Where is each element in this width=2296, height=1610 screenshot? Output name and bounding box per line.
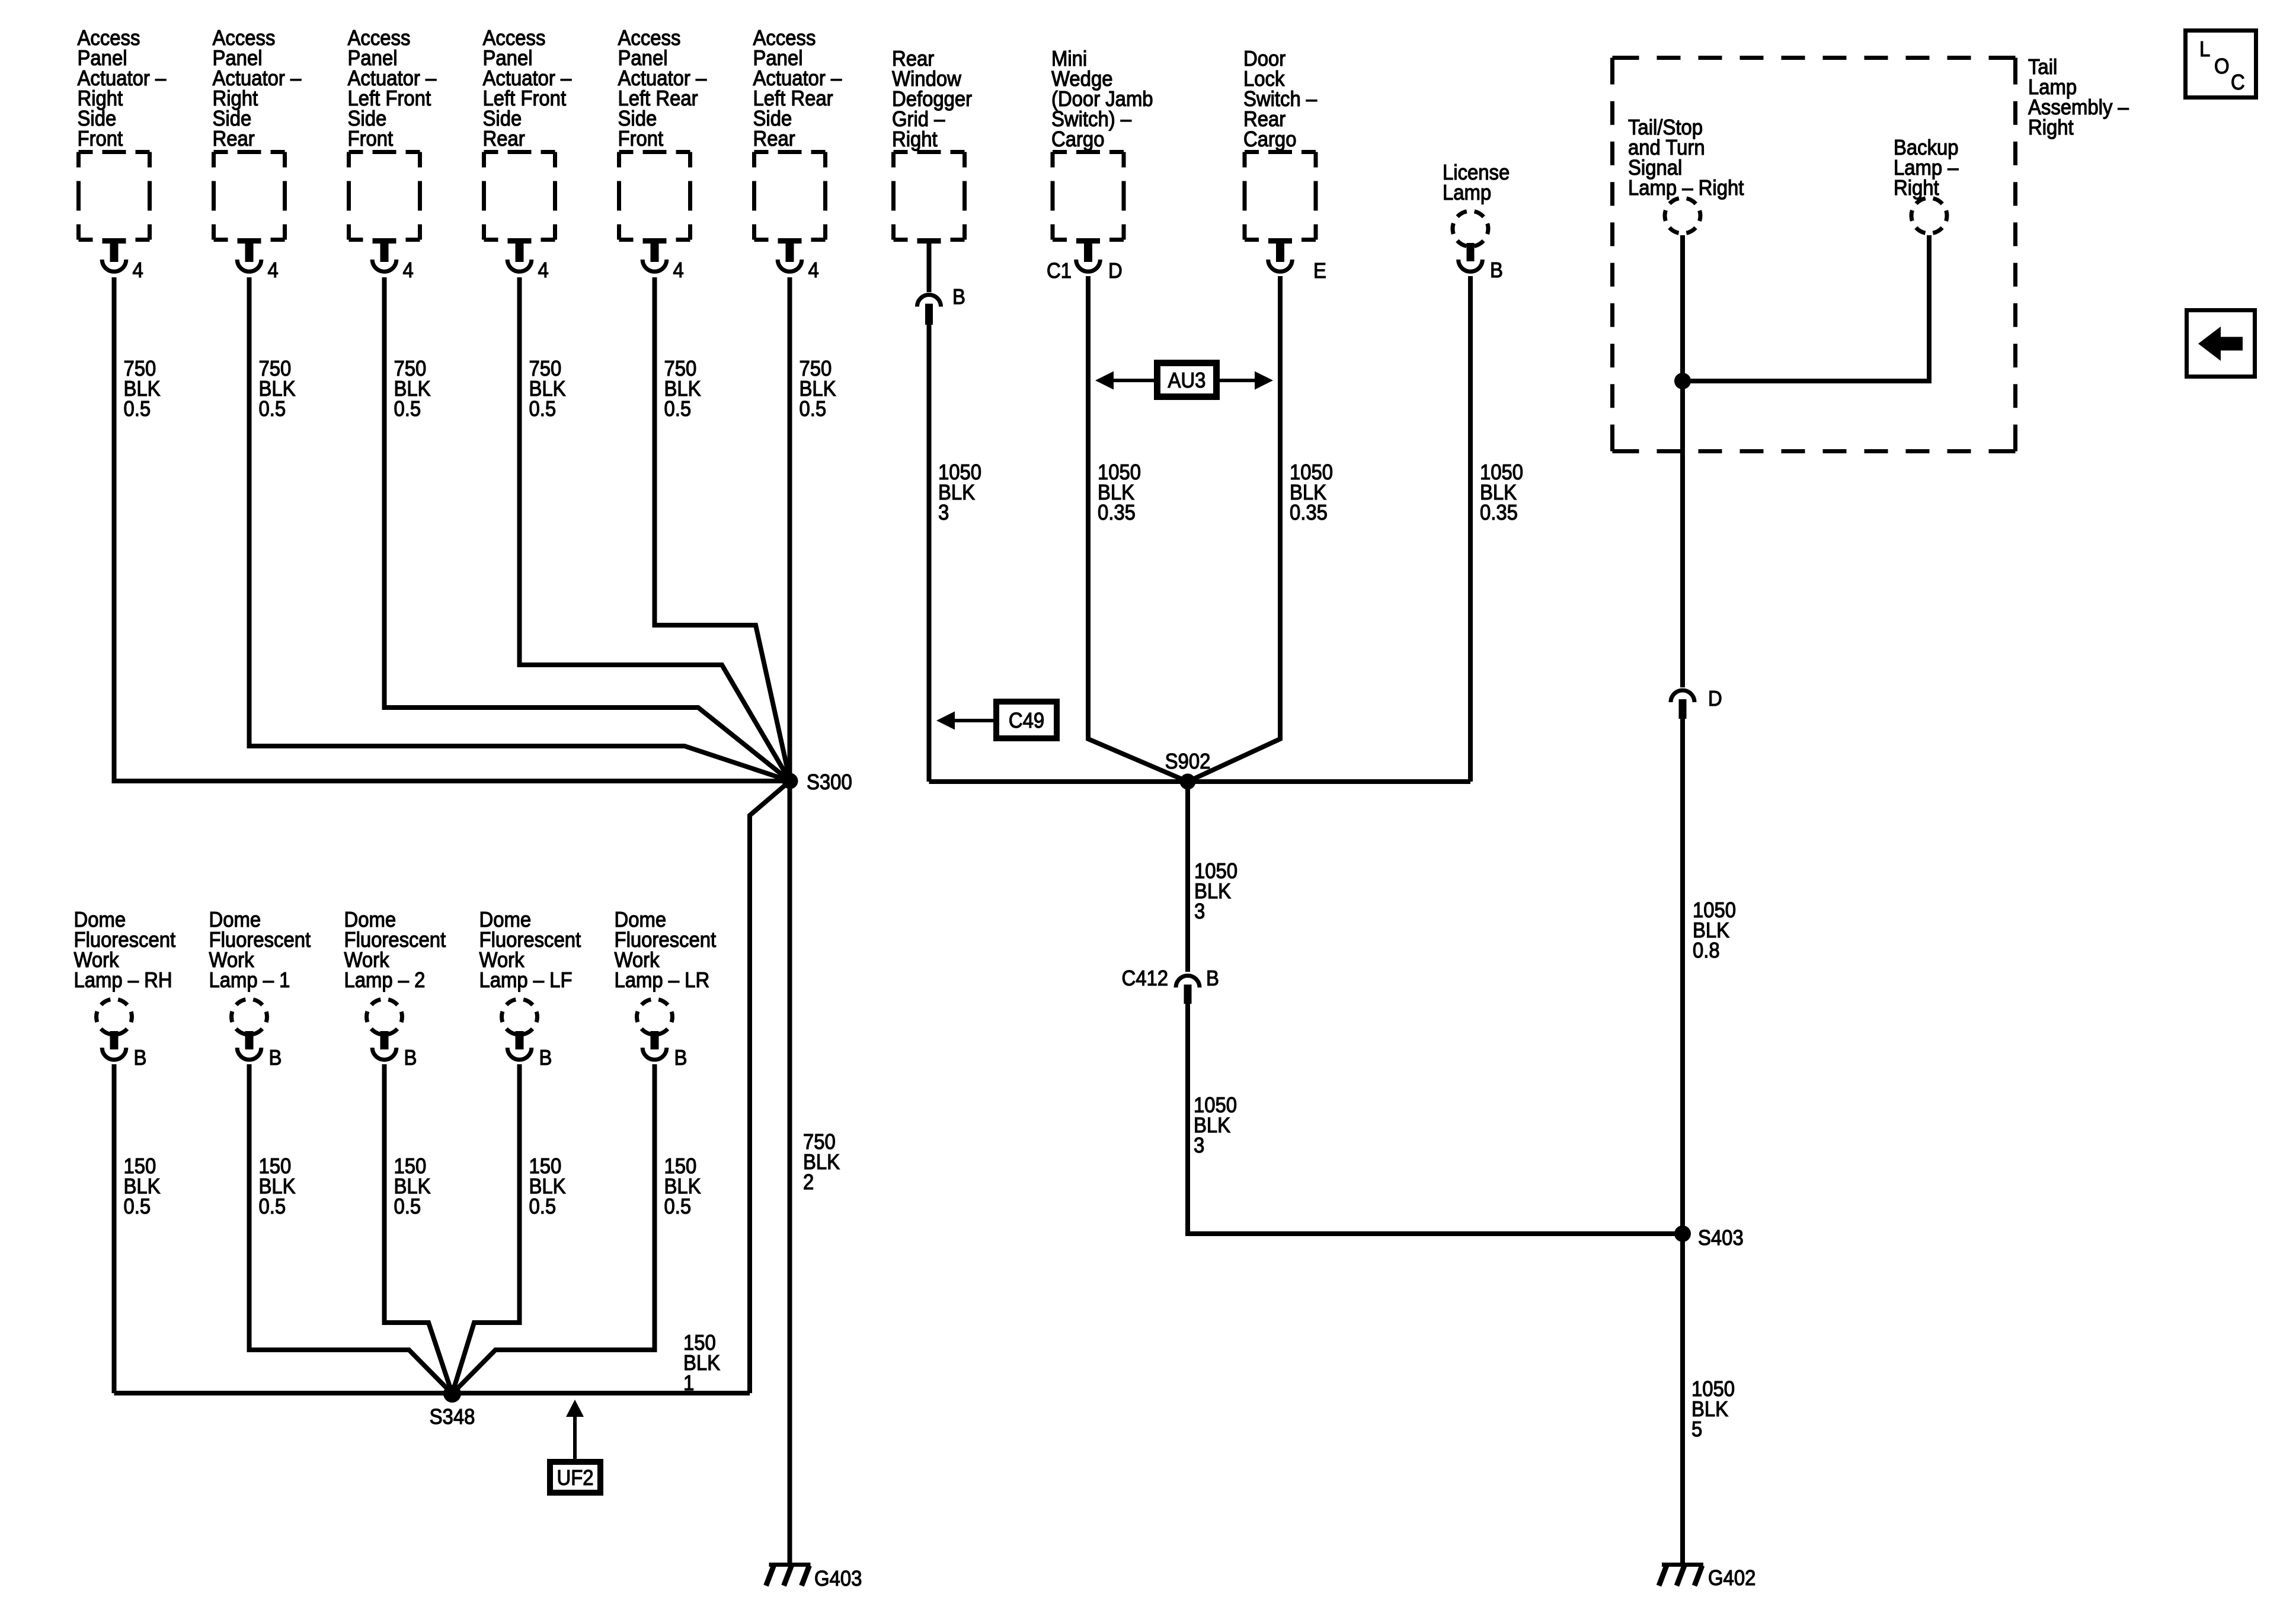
- svg-text:0.5: 0.5: [259, 1195, 286, 1218]
- svg-text:S403: S403: [1698, 1226, 1744, 1250]
- wire 750 BLK 0.5 from U6 to S300: [788, 277, 792, 781]
- svg-text:D: D: [1108, 259, 1123, 283]
- svg-text:B: B: [404, 1046, 417, 1070]
- label Tail/Stop and Turn Signal Lamp - Right: [1628, 116, 1744, 200]
- svg-text:Lamp – LF: Lamp – LF: [479, 968, 573, 992]
- callout UF2 with up arrow: [550, 1400, 600, 1493]
- svg-text:S348: S348: [430, 1405, 475, 1429]
- wire 1050 BLK 5 S403 to G402: [1680, 1234, 1685, 1563]
- svg-text:Right: Right: [892, 127, 938, 151]
- svg-text:B: B: [539, 1046, 552, 1070]
- wire 750 BLK 0.5 from U4 to S300: [520, 277, 791, 781]
- ground G402: [1659, 1563, 1755, 1590]
- lamp E2 Dome Fluorescent Work Lamp - 1: [232, 999, 267, 1060]
- svg-text:G403: G403: [814, 1567, 862, 1590]
- svg-text:Rear: Rear: [213, 127, 255, 151]
- value label 1050 BLK 5: [1691, 1377, 1735, 1441]
- callout AU3 with arrows: [1095, 363, 1273, 397]
- svg-text:Lamp – 2: Lamp – 2: [344, 968, 426, 992]
- svg-text:B: B: [1206, 966, 1219, 990]
- wire tail/stop lamp down to connector D: [1680, 235, 1685, 687]
- wire 150 BLK 1 from S348 to S300: [750, 781, 790, 1393]
- svg-text:0.5: 0.5: [394, 397, 421, 421]
- callout C49 with left arrow: [936, 702, 1057, 738]
- lamp Backup Lamp - Right: [1911, 198, 1947, 233]
- svg-text:0.5: 0.5: [529, 397, 557, 421]
- svg-text:Rear: Rear: [483, 127, 525, 151]
- node S348 splice: [430, 1385, 475, 1429]
- svg-text:0.8: 0.8: [1693, 939, 1720, 962]
- value label 1050 BLK 3 (above C412): [1194, 859, 1237, 923]
- svg-text:D: D: [1708, 687, 1722, 710]
- value label 150 BLK 0.5 (5): [664, 1154, 701, 1218]
- svg-text:S300: S300: [807, 770, 852, 794]
- svg-text:UF2: UF2: [557, 1466, 593, 1490]
- svg-text:3: 3: [1194, 900, 1205, 923]
- connector C412 pin B: [1121, 966, 1219, 1004]
- value label 750 BLK 0.5 (2): [259, 357, 296, 421]
- label component U1: [78, 26, 167, 151]
- wire 750 BLK 2 from S300 to G403: [788, 781, 792, 1563]
- label lamp E1: [74, 908, 176, 992]
- svg-text:C49: C49: [1009, 709, 1044, 732]
- value label 150 BLK 0.5 (1): [124, 1154, 161, 1218]
- label component U6: [753, 26, 842, 151]
- svg-text:B: B: [1490, 258, 1503, 282]
- wire from defogger to connector B: [927, 243, 932, 292]
- wire 750 BLK 0.5 from U5 to S300: [655, 277, 791, 781]
- node S902 splice: [1165, 750, 1211, 789]
- value label 750 BLK 0.5 (1): [124, 357, 161, 421]
- svg-text:0.5: 0.5: [394, 1195, 421, 1218]
- svg-text:0.5: 0.5: [664, 397, 692, 421]
- svg-text:0.35: 0.35: [1480, 501, 1518, 524]
- svg-text:4: 4: [268, 258, 279, 282]
- svg-text:0.5: 0.5: [259, 397, 286, 421]
- svg-text:Right: Right: [1894, 176, 1939, 200]
- value label 1050 BLK 0.35 (license): [1480, 460, 1523, 524]
- value label 750 BLK 0.5 (5): [664, 357, 701, 421]
- label Tail Lamp Assembly - Right: [2028, 55, 2129, 139]
- svg-text:Cargo: Cargo: [1243, 127, 1296, 151]
- component box Tail Lamp Assembly - Right (dashed): [1613, 58, 2016, 452]
- svg-text:Right: Right: [2028, 116, 2074, 139]
- svg-text:Front: Front: [78, 127, 123, 151]
- svg-text:B: B: [269, 1046, 282, 1070]
- svg-text:4: 4: [673, 258, 684, 282]
- wire 1050 BLK 3 S902 to C412: [1185, 782, 1190, 972]
- wire 150 BLK 0.5 from lamp E2 to S348: [250, 1064, 453, 1394]
- svg-text:0.5: 0.5: [664, 1195, 692, 1218]
- svg-text:Lamp – RH: Lamp – RH: [74, 968, 172, 992]
- svg-text:3: 3: [1194, 1134, 1204, 1157]
- value label 1050 BLK 3 (below C412): [1194, 1093, 1237, 1157]
- wire 150 BLK 0.5 from lamp E1 to S348: [112, 1064, 117, 1393]
- component Door Lock Switch - Rear Cargo: [1245, 152, 1316, 272]
- node S300 splice: [782, 770, 852, 794]
- wire 1050 BLK 0.8 connector D to S403: [1680, 719, 1685, 1234]
- lamp E3 Dome Fluorescent Work Lamp - 2: [367, 999, 402, 1060]
- svg-text:0.35: 0.35: [1290, 501, 1328, 524]
- value label 1050 BLK 0.35 (mini wedge): [1098, 460, 1141, 524]
- svg-text:4: 4: [538, 258, 549, 282]
- label Mini Wedge (Door Jamb Switch) - Cargo: [1051, 47, 1153, 151]
- svg-text:Lamp – Right: Lamp – Right: [1628, 176, 1744, 200]
- svg-text:Front: Front: [618, 127, 664, 151]
- wire 1050 BLK 0.35 license lamp to S902: [1468, 276, 1473, 782]
- svg-text:Cargo: Cargo: [1051, 127, 1104, 151]
- svg-text:L: L: [2199, 37, 2210, 61]
- wire backup lamp to junction: [1683, 235, 1929, 381]
- label Door Lock Switch - Rear Cargo: [1243, 47, 1318, 151]
- value label 750 BLK 0.5 (6): [800, 357, 836, 421]
- connector D inline (tail lamp): [1671, 687, 1722, 719]
- wire 150 BLK 0.5 from lamp E3 to S348: [385, 1064, 453, 1394]
- svg-text:Lamp: Lamp: [1443, 181, 1491, 204]
- component Mini Wedge (Door Jamb Switch) - Cargo: [1053, 152, 1124, 272]
- label component U4: [483, 26, 572, 151]
- svg-text:0.5: 0.5: [529, 1195, 557, 1218]
- wire 150 BLK 0.5 from lamp E4 to S348: [452, 1064, 520, 1394]
- lamp Tail/Stop and Turn Signal Lamp - Right: [1665, 198, 1700, 233]
- svg-text:0.35: 0.35: [1098, 501, 1136, 524]
- label component U2: [213, 26, 302, 151]
- svg-text:E: E: [1313, 259, 1326, 283]
- label License Lamp: [1443, 161, 1510, 204]
- wire 150 BLK 0.5 from lamp E5 to S348: [452, 1064, 655, 1394]
- wire 750 BLK 0.5 from U2 to S300: [250, 277, 791, 781]
- label Rear Window Defogger Grid - Right: [892, 47, 972, 151]
- value label 1050 BLK 0.8: [1693, 898, 1736, 962]
- value label 750 BLK 0.5 (4): [529, 357, 566, 421]
- wire 1050 BLK 3 C412 to S403: [1188, 1004, 1683, 1234]
- wire S902 bus: [929, 779, 1471, 784]
- svg-text:0.5: 0.5: [124, 397, 151, 421]
- lamp E1 Dome Fluorescent Work Lamp - RH: [97, 999, 132, 1060]
- svg-text:C1: C1: [1047, 259, 1072, 283]
- svg-text:Rear: Rear: [753, 127, 795, 151]
- component U3 Access Panel Actuator - Left Front Side Front: [349, 152, 420, 272]
- value label 1050 BLK 0.35 (door lock): [1290, 460, 1333, 524]
- value label 750 BLK 0.5 (3): [394, 357, 431, 421]
- svg-text:4: 4: [133, 258, 143, 282]
- svg-text:B: B: [674, 1046, 687, 1070]
- svg-text:C: C: [2231, 71, 2245, 94]
- label component U5: [618, 26, 707, 151]
- label lamp E5: [615, 908, 717, 992]
- lamp E4 Dome Fluorescent Work Lamp - LF: [502, 999, 538, 1060]
- svg-text:0.5: 0.5: [800, 397, 827, 421]
- svg-text:G402: G402: [1708, 1566, 1755, 1590]
- svg-text:S902: S902: [1165, 750, 1211, 773]
- value label 750 BLK 2: [803, 1130, 840, 1194]
- value label 150 BLK 1: [683, 1331, 720, 1395]
- lamp License Lamp: [1453, 211, 1488, 271]
- lamp E5 Dome Fluorescent Work Lamp - LR: [637, 999, 673, 1060]
- junction dot in tail lamp assembly: [1674, 373, 1691, 389]
- label lamp E3: [344, 908, 446, 992]
- component U1 Access Panel Actuator - Right Side Front: [79, 152, 150, 272]
- left arrow legend box: [2187, 311, 2255, 377]
- svg-text:Lamp – 1: Lamp – 1: [209, 968, 290, 992]
- node S403 splice: [1674, 1225, 1744, 1250]
- wire 1050 BLK 0.35 mini wedge to S902: [1088, 276, 1188, 782]
- label component U3: [348, 26, 437, 151]
- svg-text:O: O: [2214, 55, 2230, 78]
- component Rear Window Defogger Grid - Right: [894, 152, 965, 244]
- value label 1050 BLK 3 (defogger): [938, 460, 981, 524]
- svg-text:4: 4: [403, 258, 414, 282]
- svg-text:5: 5: [1691, 1417, 1702, 1441]
- svg-text:C412: C412: [1121, 966, 1168, 990]
- svg-text:4: 4: [808, 258, 819, 282]
- component U2 Access Panel Actuator - Right Side Rear: [214, 152, 285, 272]
- svg-text:AU3: AU3: [1168, 369, 1206, 392]
- ground G403: [766, 1563, 862, 1590]
- wire 750 BLK 0.5 from U1 to S300: [114, 277, 791, 781]
- svg-text:B: B: [952, 285, 965, 309]
- LOC legend box: [2186, 31, 2256, 98]
- pin C1 / D of mini wedge: [1047, 259, 1123, 283]
- svg-text:0.5: 0.5: [124, 1195, 151, 1218]
- connector B inline (defogger): [917, 285, 965, 325]
- svg-text:2: 2: [803, 1170, 814, 1194]
- svg-text:B: B: [134, 1046, 147, 1070]
- label Backup Lamp - Right: [1894, 136, 1959, 200]
- wire 1050 BLK 0.35 door lock to S902: [1188, 276, 1280, 782]
- label lamp E4: [479, 908, 581, 992]
- value label 150 BLK 0.5 (4): [529, 1154, 566, 1218]
- svg-text:Lamp – LR: Lamp – LR: [615, 968, 710, 992]
- value label 150 BLK 0.5 (3): [394, 1154, 431, 1218]
- svg-text:3: 3: [938, 501, 949, 524]
- label lamp E2: [209, 908, 311, 992]
- wire 750 BLK 0.5 from U3 to S300: [385, 277, 791, 781]
- component U4 Access Panel Actuator - Left Front Side Rear: [484, 152, 555, 272]
- svg-text:Front: Front: [348, 127, 394, 151]
- value label 150 BLK 0.5 (2): [259, 1154, 296, 1218]
- component U5 Access Panel Actuator - Left Rear Side Front: [619, 152, 690, 272]
- wire 1050 BLK 3 defogger to S902: [927, 325, 932, 782]
- component U6 Access Panel Actuator - Left Rear Side Rear: [754, 152, 826, 272]
- wire S348 bus: [114, 1391, 750, 1395]
